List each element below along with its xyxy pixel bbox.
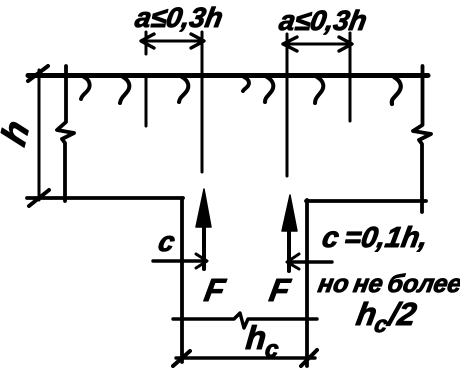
reinforcement squiggle 2 [120, 77, 129, 103]
dimension a1 line [142, 40, 203, 43]
dimension line h vertical [38, 70, 41, 200]
label a2 [277, 4, 370, 36]
force arrow F1 head [196, 189, 211, 227]
dimension hc right tick [301, 350, 317, 366]
reinforcement squiggle 6 [315, 77, 323, 103]
dimension a2 right extension line [349, 33, 352, 121]
svg-text:F: F [267, 272, 294, 308]
label F2 [267, 272, 294, 308]
dimension hc left tick [173, 351, 190, 366]
svg-text:a≤0,3h: a≤0,3h [133, 1, 226, 33]
svg-text:F: F [202, 272, 229, 308]
svg-text:c =0,1h,: c =0,1h, [320, 222, 431, 254]
label c1 [156, 225, 179, 257]
note text line 1: c = 0,1h, [320, 222, 431, 254]
slab bottom right edge [306, 199, 426, 203]
svg-text:hc: hc [244, 320, 282, 363]
dimension hc line [176, 356, 315, 359]
svg-text:h: h [0, 114, 37, 151]
dimension a2 left extension line [286, 34, 289, 176]
column left edge [180, 198, 184, 362]
slab left edge with break mark [57, 66, 74, 201]
reinforcement squiggle 5 [265, 77, 273, 102]
label F1 [202, 272, 229, 308]
reinforcement squiggle 1 [81, 77, 90, 99]
svg-text:hc/2: hc/2 [353, 296, 419, 337]
force arrow F2 shaft [287, 218, 291, 271]
svg-text:a≤0,3h: a≤0,3h [277, 4, 370, 36]
dimension a1 right extension line [201, 32, 204, 172]
note text line 3: hc/2 [353, 296, 419, 337]
reinforcement squiggle 4 [243, 77, 249, 91]
dimension a2 right arrowhead [339, 37, 352, 51]
slab right edge with break mark [413, 66, 431, 212]
dimension c2 arrowhead [287, 254, 299, 269]
dimension a2 line [284, 43, 351, 46]
dimension c1 tick line [153, 259, 206, 262]
column break line with zigzag [173, 313, 317, 328]
dimension a1 left extension line [145, 32, 148, 126]
dimension h top tick [28, 66, 48, 81]
label hc [244, 320, 282, 363]
slab top edge [28, 73, 428, 78]
label a1 [133, 1, 226, 33]
force arrow F1 shaft [202, 215, 206, 269]
dimension h bottom tick [29, 190, 49, 206]
svg-text:но не более: но не более [316, 270, 460, 298]
slab bottom left edge [27, 196, 183, 200]
dimension a1 left arrowhead [141, 34, 154, 48]
dimension c1 arrowhead [196, 254, 207, 268]
svg-text:c: c [156, 225, 179, 257]
dimension a2 left arrowhead [283, 37, 297, 51]
dimension c2 tick line [288, 260, 332, 263]
dimension a1 right arrowhead [191, 34, 204, 48]
force arrow F2 head [282, 195, 297, 231]
reinforcement squiggle 7 [392, 77, 401, 104]
note text line 2: no ne bolee [316, 270, 460, 298]
column right edge [305, 200, 309, 366]
reinforcement squiggle 3 [179, 77, 188, 102]
